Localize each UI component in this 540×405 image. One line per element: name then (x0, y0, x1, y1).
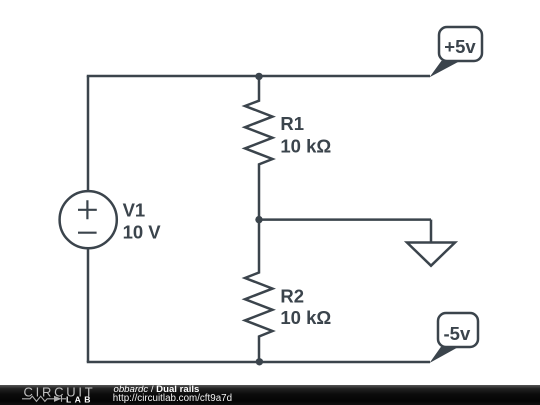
credits text (114, 385, 200, 395)
junction dot: bottom node (256, 358, 263, 365)
net flag -5v (430, 313, 479, 363)
svg-text:LAB: LAB (66, 394, 94, 404)
resistor R1 (245, 76, 273, 219)
junction dot: top node (255, 73, 262, 80)
resistor R2 (245, 220, 273, 362)
wire: bottom rail from left corner to -5v flag (87, 361, 430, 364)
wire: left vertical (V1 bottom lead to bottom rail) (87, 248, 90, 362)
wire: left vertical (V1 top lead to top rail) (87, 76, 90, 192)
wire: top rail from left corner to +5v flag (87, 75, 430, 78)
junction dot: middle node (255, 216, 262, 223)
footer bar (0, 385, 540, 405)
wire: middle rail from node to ground (259, 218, 431, 221)
voltage source V1 (60, 191, 117, 248)
ground (407, 220, 455, 266)
net flag +5v (430, 27, 483, 77)
